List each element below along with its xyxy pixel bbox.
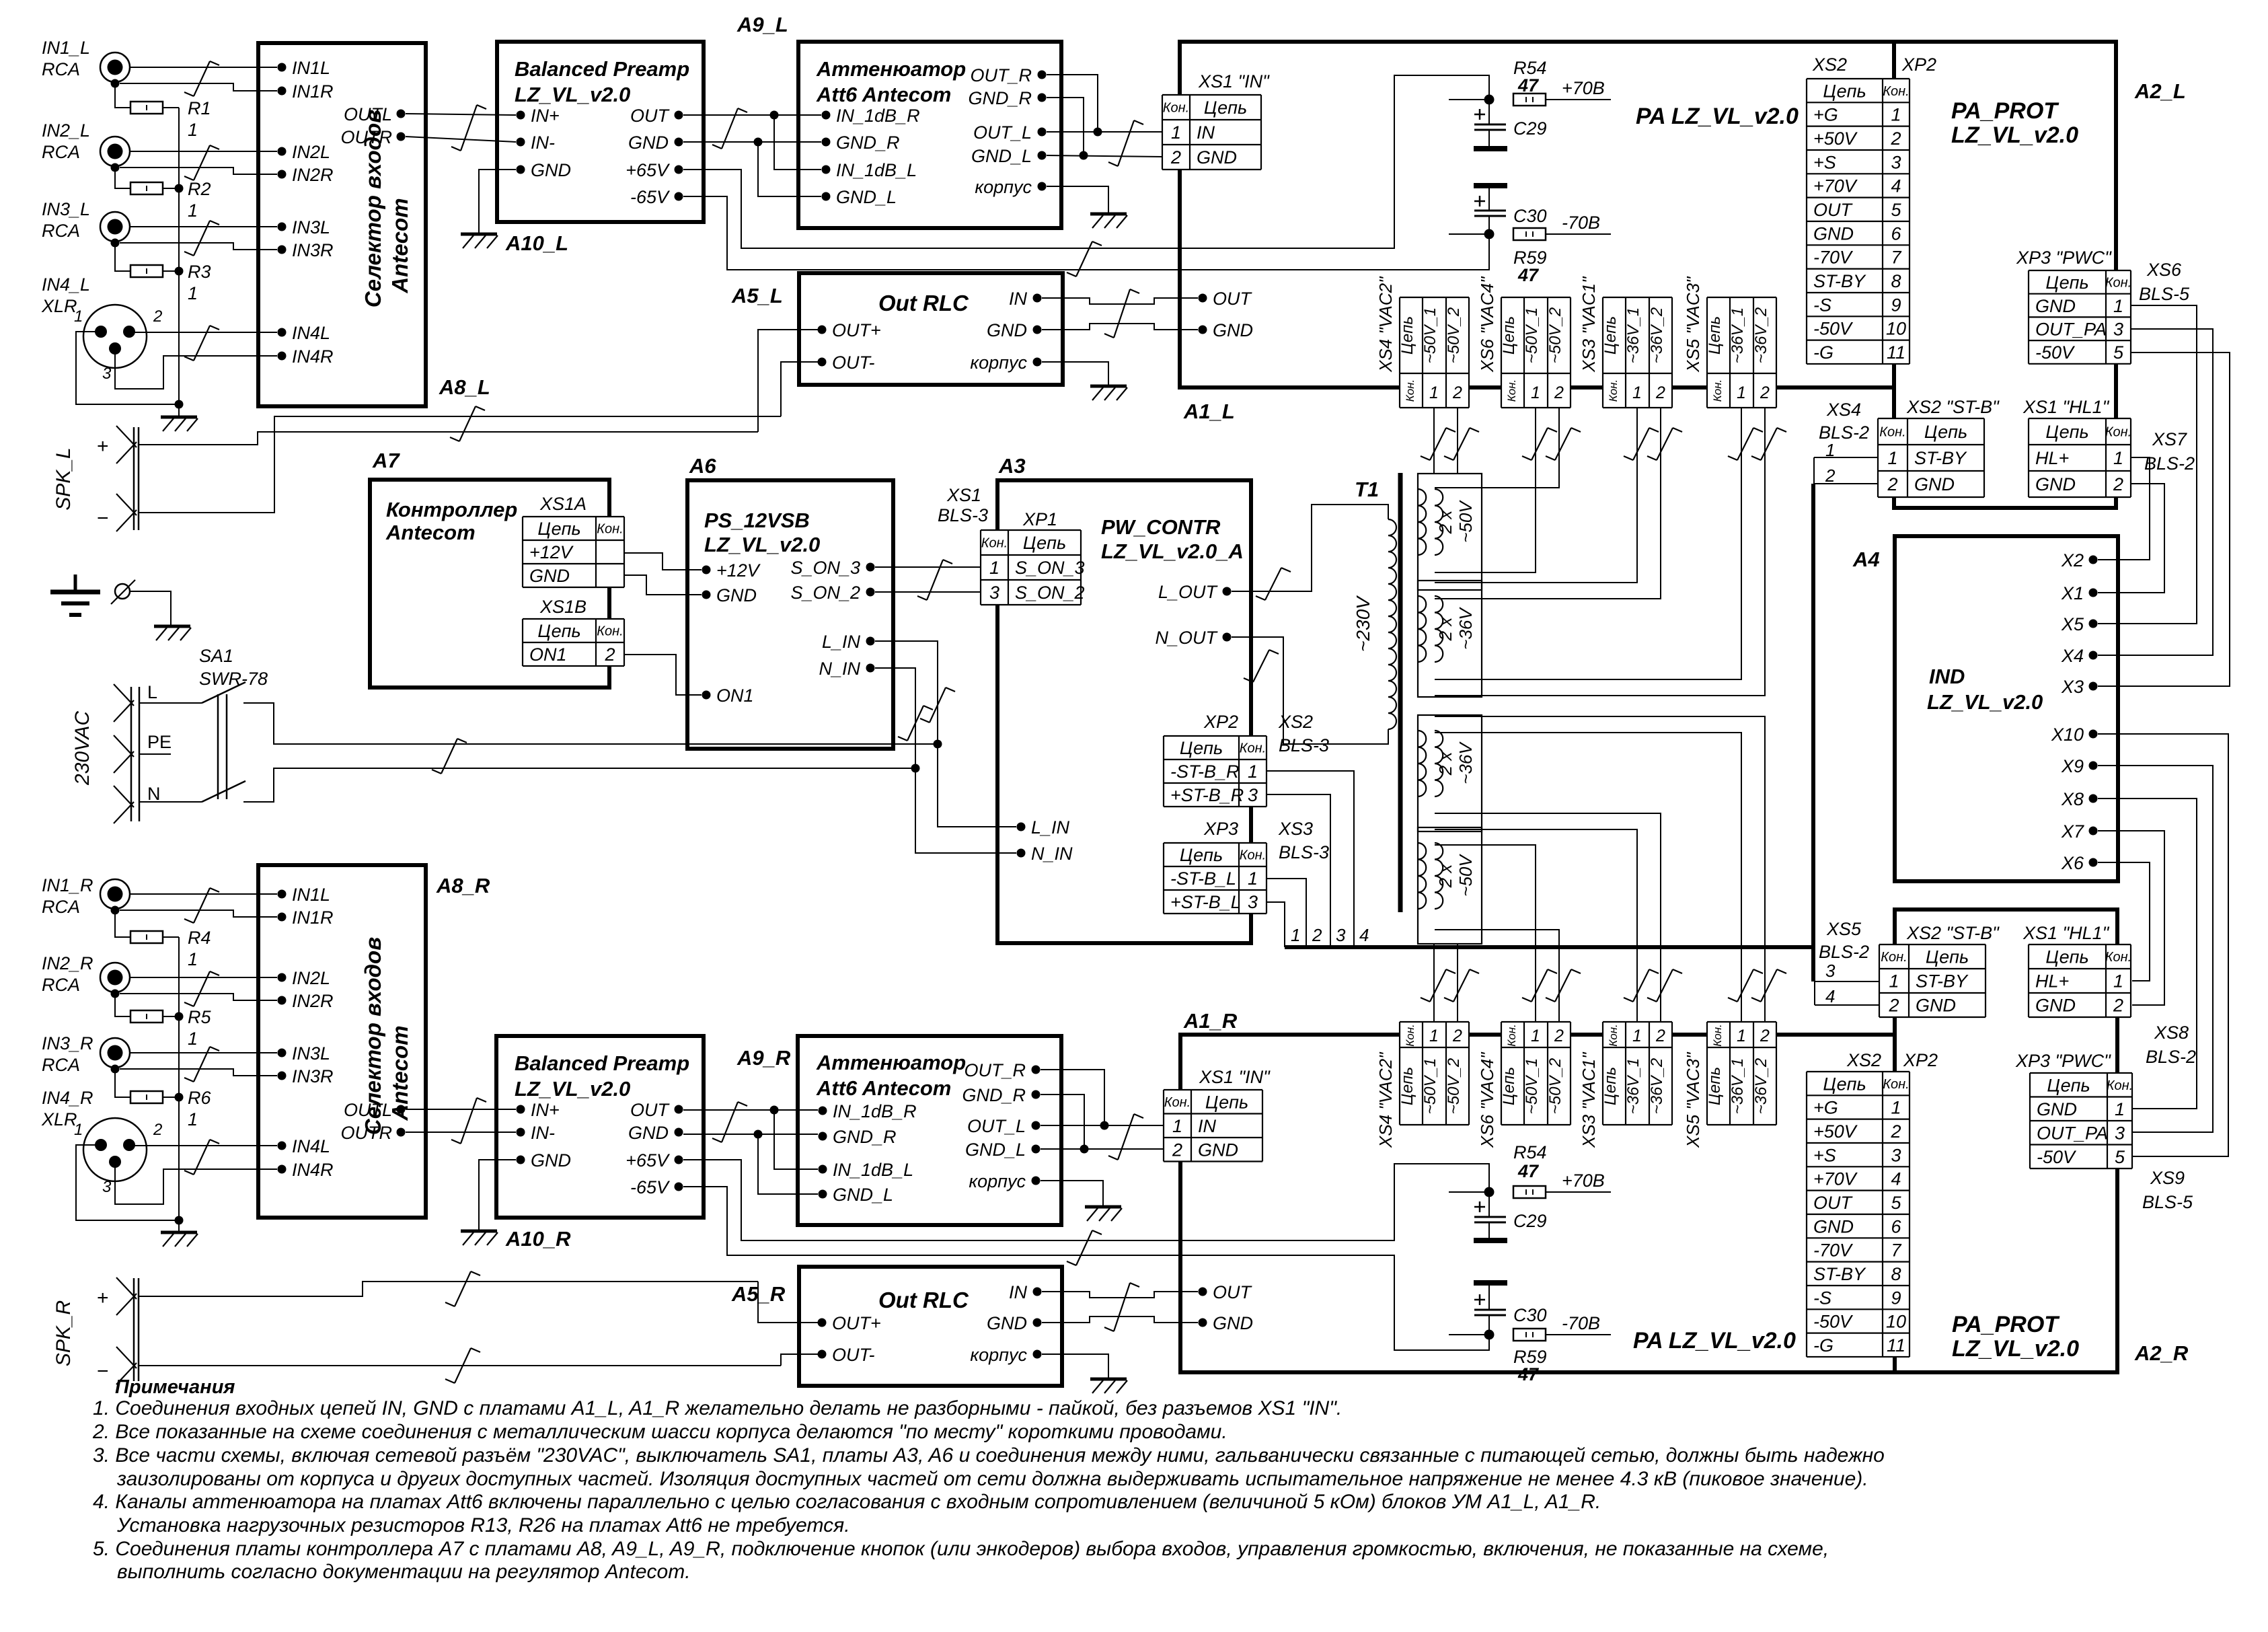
wire OUT split to IN_1dB_L bbox=[774, 115, 821, 170]
label A5_R bbox=[731, 1282, 786, 1306]
svg-text:~36V_1: ~36V_1 bbox=[1729, 307, 1747, 363]
svg-text:Цепь: Цепь bbox=[1706, 316, 1724, 355]
svg-text:Antecom: Antecom bbox=[387, 198, 412, 293]
svg-text:3. Все части схемы, включая се: 3. Все части схемы, включая сетевой разъ… bbox=[93, 1444, 1885, 1467]
svg-text:A4: A4 bbox=[1852, 548, 1880, 571]
svg-text:Att6 Antecom: Att6 Antecom bbox=[816, 1076, 951, 1100]
pin GND_R right of A9_L bbox=[968, 88, 1046, 108]
svg-text:1: 1 bbox=[188, 120, 198, 140]
svg-text:XS5 "VAC3": XS5 "VAC3" bbox=[1683, 1051, 1703, 1148]
svg-text:2: 2 bbox=[1760, 383, 1770, 402]
chassis ground A9_R bbox=[1085, 1207, 1122, 1221]
svg-text:3: 3 bbox=[1248, 785, 1258, 805]
wire X7 to HL GND bottom bbox=[2098, 831, 2164, 1005]
svg-text:RCA: RCA bbox=[42, 142, 80, 162]
label -70B bbox=[1562, 213, 1600, 233]
label T1 bbox=[1355, 478, 1379, 501]
wire XS1A +12V to A6 bbox=[624, 553, 702, 570]
pin GND_R right of A9_R bbox=[962, 1085, 1040, 1105]
pin IN1R of A8_L bbox=[278, 81, 334, 102]
cable slash VAC3 2 bbox=[1751, 428, 1786, 460]
svg-text:A9_L: A9_L bbox=[736, 13, 788, 36]
svg-text:OUT_PA: OUT_PA bbox=[2037, 1123, 2108, 1143]
svg-text:Цепь: Цепь bbox=[1823, 81, 1866, 101]
cable slash VAC1 2 bbox=[1647, 428, 1682, 460]
svg-text:-ST-B_L: -ST-B_L bbox=[1170, 868, 1236, 889]
svg-text:Balanced Preamp: Balanced Preamp bbox=[515, 1051, 689, 1075]
svg-text:IN: IN bbox=[1198, 1116, 1217, 1136]
svg-text:IN1L: IN1L bbox=[292, 58, 330, 78]
pin IN2L of A8_L bbox=[278, 142, 331, 162]
thick ST-B riser bbox=[1811, 484, 1815, 981]
svg-text:~50V_1: ~50V_1 bbox=[1421, 1058, 1439, 1114]
svg-text:1: 1 bbox=[74, 1121, 83, 1139]
svg-text:Кон.: Кон. bbox=[1711, 1024, 1724, 1047]
svg-text:2: 2 bbox=[1172, 1140, 1182, 1160]
cable slash SPK_R plus bbox=[445, 1271, 480, 1306]
wire OUT_L to XS1 IN row1 bbox=[1047, 131, 1162, 133]
svg-text:XS1: XS1 bbox=[946, 485, 981, 505]
label XS1 HL1 top bbox=[2023, 397, 2110, 417]
label A1_L bbox=[1183, 400, 1235, 423]
junction dot R59 bottom bbox=[1484, 1330, 1495, 1340]
svg-text:OUT: OUT bbox=[630, 1100, 671, 1120]
svg-text:2 x: 2 x bbox=[1435, 617, 1456, 642]
svg-text:2: 2 bbox=[1170, 147, 1181, 168]
XLR pin labels 1 2 3 bbox=[74, 307, 162, 383]
svg-text:-ST-B_R: -ST-B_R bbox=[1170, 762, 1240, 782]
svg-text:1: 1 bbox=[2113, 971, 2123, 992]
svg-text:1: 1 bbox=[188, 949, 198, 969]
svg-text:OUT: OUT bbox=[1813, 200, 1854, 220]
wire A5_L OUT+ down bbox=[758, 330, 822, 432]
pin L_IN of A6 bbox=[822, 632, 875, 652]
svg-text:XP2: XP2 bbox=[1901, 54, 1936, 75]
wire IN3_L sleeve to A8_L IN3R bbox=[120, 243, 277, 250]
svg-text:корпус: корпус bbox=[970, 1345, 1027, 1365]
wire +ST-B_L to bus bbox=[1267, 902, 1285, 947]
svg-text:Цепь: Цепь bbox=[2047, 1075, 2090, 1095]
svg-text:A9_R: A9_R bbox=[736, 1046, 791, 1070]
svg-text:−: − bbox=[97, 1360, 109, 1382]
label XS2 A1_R bbox=[1846, 1050, 1881, 1070]
T1 secondary winding group 2 2x~36V bbox=[1418, 581, 1482, 697]
wire IN1_L sleeve to A8_L IN1R bbox=[120, 83, 277, 91]
svg-text:Цепь: Цепь bbox=[537, 621, 580, 641]
pin X7 of A4 bbox=[2061, 821, 2098, 842]
wire +65V feed bottom bbox=[683, 1160, 1489, 1240]
svg-text:OUTR: OUTR bbox=[341, 127, 393, 147]
label XP3 PWC bottom bbox=[2015, 1051, 2111, 1071]
svg-text:GND: GND bbox=[1213, 320, 1253, 340]
svg-text:OUT_R: OUT_R bbox=[964, 1060, 1026, 1080]
switch SA1 bbox=[199, 646, 268, 802]
label A5_L bbox=[731, 284, 783, 307]
wire VAC1 bottom lead 2 bbox=[1435, 813, 1661, 1022]
svg-text:XS1B: XS1B bbox=[539, 597, 587, 617]
svg-text:-65V: -65V bbox=[630, 1177, 671, 1197]
cable slash N_OUT bbox=[1244, 650, 1279, 682]
svg-text:PE: PE bbox=[147, 732, 172, 752]
svg-text:5: 5 bbox=[2113, 342, 2124, 363]
pin IN2R of A8_R bbox=[278, 991, 334, 1011]
resistor R3 bbox=[130, 265, 163, 277]
svg-text:~50V_2: ~50V_2 bbox=[1445, 307, 1463, 363]
svg-text:Кон.: Кон. bbox=[1505, 379, 1518, 402]
label XS1 BLS-3 bbox=[938, 485, 988, 525]
svg-text:Кон.: Кон. bbox=[1883, 1077, 1909, 1092]
pin IN of A5_L bbox=[1009, 289, 1042, 309]
wire SA1 L out bbox=[243, 703, 938, 744]
block A1_R PA box bbox=[1180, 1035, 1895, 1372]
T1 primary winding bbox=[1388, 519, 1396, 729]
pin OUT of A10_R bbox=[630, 1100, 683, 1120]
A8_R rotated title bbox=[361, 937, 412, 1135]
svg-text:Кон.: Кон. bbox=[981, 536, 1008, 551]
svg-text:A10_L: A10_L bbox=[505, 231, 568, 255]
svg-text:4: 4 bbox=[1891, 176, 1901, 196]
resistor R54 bbox=[1513, 94, 1546, 106]
A4 title bbox=[1927, 665, 2043, 714]
pin S_ON_2 of A6 bbox=[790, 583, 874, 603]
svg-text:IN4R: IN4R bbox=[292, 346, 334, 367]
wire 230VAC PE stub bbox=[139, 753, 171, 755]
wire N_OUT to primary bbox=[1232, 637, 1388, 744]
svg-text:+S: +S bbox=[1813, 152, 1836, 172]
svg-text:1: 1 bbox=[1531, 1027, 1540, 1045]
svg-text:L_IN: L_IN bbox=[1031, 817, 1070, 838]
wire VAC4 bottom lead 2 bbox=[1435, 930, 1559, 1022]
wire ground bus vertical bottom bbox=[178, 937, 180, 1232]
svg-text:Цепь: Цепь bbox=[1601, 316, 1620, 355]
svg-text:GND: GND bbox=[2035, 996, 2076, 1016]
svg-text:X10: X10 bbox=[2051, 725, 2084, 745]
svg-text:~50V: ~50V bbox=[1456, 500, 1476, 543]
capacitor C30 bottom bbox=[1474, 1283, 1547, 1335]
svg-text:IN2_L: IN2_L bbox=[42, 120, 90, 141]
block A2_L PA_PROT box bbox=[1894, 42, 2116, 508]
wire SPK_R plus bbox=[139, 1282, 758, 1296]
cable slash A5_L-A1_L pair bbox=[1104, 289, 1139, 338]
block A10_L Balanced Preamp box bbox=[497, 42, 704, 222]
A10_R title bbox=[515, 1051, 689, 1101]
capacitor C29 bottom bbox=[1474, 1192, 1547, 1240]
cable slash att out pair bbox=[1108, 120, 1143, 166]
A9_R title bbox=[816, 1051, 966, 1100]
svg-text:выполнить согласно документаци: выполнить согласно документации на регул… bbox=[117, 1561, 691, 1583]
block A3 PW_CONTR box bbox=[997, 480, 1251, 943]
svg-text:Установка нагрузочных резистор: Установка нагрузочных резисторов R13, R2… bbox=[116, 1514, 850, 1536]
wire IN3_R sleeve down to R6 bbox=[115, 1073, 130, 1097]
svg-text:X3: X3 bbox=[2061, 677, 2084, 697]
pin GND right of A10_L bbox=[628, 133, 683, 153]
svg-text:R4: R4 bbox=[188, 928, 211, 948]
svg-text:A6: A6 bbox=[689, 454, 716, 478]
svg-text:XS6 "VAC4": XS6 "VAC4" bbox=[1477, 276, 1497, 373]
wire IN2_L sleeve to A8_L IN2R bbox=[120, 168, 277, 174]
svg-text:6: 6 bbox=[1891, 223, 1901, 244]
resistor R2 bbox=[130, 182, 163, 194]
svg-text:IN2L: IN2L bbox=[292, 968, 330, 988]
svg-text:2: 2 bbox=[1452, 1027, 1462, 1045]
svg-text:Цепь: Цепь bbox=[1706, 1067, 1724, 1105]
pin корпус of A5_L bbox=[970, 353, 1041, 373]
svg-text:1: 1 bbox=[2113, 296, 2123, 316]
svg-text:+70V: +70V bbox=[1813, 176, 1858, 196]
svg-text:~50V_2: ~50V_2 bbox=[1546, 307, 1564, 363]
svg-text:7: 7 bbox=[1891, 1240, 1901, 1261]
pin N_IN of A6 bbox=[819, 659, 874, 679]
wire X6 to HL+ bottom bbox=[2098, 862, 2150, 981]
label A2_L bbox=[2134, 79, 2186, 103]
label XS2 ST-B top bbox=[1906, 397, 2000, 417]
label XP1 bbox=[1022, 509, 1057, 529]
svg-text:OUT: OUT bbox=[1813, 1193, 1854, 1213]
block A5_L Out RLC box bbox=[799, 273, 1063, 385]
wire R3 to ground bus bbox=[163, 270, 179, 272]
svg-text:A10_R: A10_R bbox=[505, 1227, 571, 1251]
svg-text:XS5 "VAC3": XS5 "VAC3" bbox=[1683, 276, 1703, 373]
wire R54 to +70B bbox=[1546, 99, 1611, 100]
wire R1 to ground bus bbox=[163, 107, 179, 108]
svg-text:+G: +G bbox=[1813, 105, 1838, 125]
svg-text:Цепь: Цепь bbox=[1924, 422, 1967, 442]
svg-text:BLS-2: BLS-2 bbox=[2144, 453, 2195, 474]
RCA jack IN3_R bbox=[100, 1038, 130, 1074]
block A1_L PA box bbox=[1180, 42, 1894, 387]
label XS2 BLS-3 bbox=[1278, 712, 1329, 755]
wire GND_R down R bbox=[1041, 1095, 1084, 1149]
cable slash VAC1 1 bbox=[1624, 428, 1659, 460]
svg-text:2: 2 bbox=[1825, 466, 1836, 486]
svg-text:+70V: +70V bbox=[1813, 1169, 1858, 1189]
svg-text:BLS-3: BLS-3 bbox=[1279, 735, 1329, 755]
A10_L title bbox=[515, 57, 689, 106]
svg-text:XS4 "VAC2": XS4 "VAC2" bbox=[1375, 276, 1396, 373]
svg-text:230VAC: 230VAC bbox=[71, 711, 93, 786]
wire IN3_L tip to A8_L IN3L bbox=[130, 226, 277, 227]
svg-text:R3: R3 bbox=[188, 262, 211, 282]
pin OUT_L of A9_R bbox=[967, 1116, 1041, 1136]
svg-text:LZ_VL_v2.0_A: LZ_VL_v2.0_A bbox=[1101, 540, 1244, 563]
wire X8 to XP3 GND bottom bbox=[2098, 799, 2197, 1109]
pin GND of A10_R bbox=[517, 1150, 572, 1171]
junction dot GND split bbox=[754, 138, 763, 147]
svg-text:IN: IN bbox=[1197, 122, 1215, 143]
svg-text:1: 1 bbox=[188, 1109, 198, 1129]
chassis ground input bus bbox=[161, 417, 198, 431]
svg-text:47: 47 bbox=[1517, 1161, 1540, 1181]
wire корпус A9_L to chassis bbox=[1047, 186, 1108, 213]
svg-text:GND: GND bbox=[987, 1313, 1027, 1333]
svg-text:IN3_L: IN3_L bbox=[42, 199, 90, 219]
connector table XS5 "VAC3" top bbox=[1683, 276, 1776, 408]
block A9_L Att6 box bbox=[798, 42, 1061, 228]
svg-text:Кон.: Кон. bbox=[597, 624, 623, 639]
block A6 PS_12VSB box bbox=[687, 480, 893, 749]
wire XLR pin2 to A8_L IN4L bbox=[134, 332, 277, 333]
wire A10_R GND to chassis bbox=[479, 1160, 516, 1230]
junction dot OUT_R/OUT_L bbox=[1094, 128, 1102, 137]
label R2 value 1 bbox=[188, 179, 211, 221]
svg-text:2: 2 bbox=[1888, 996, 1899, 1016]
svg-text:GND: GND bbox=[529, 566, 570, 586]
block A9_R box bbox=[798, 1036, 1061, 1225]
svg-text:GND_R: GND_R bbox=[968, 88, 1032, 108]
label A9_R bbox=[736, 1046, 791, 1070]
svg-text:Цепь: Цепь bbox=[2045, 947, 2088, 967]
table XS2/XP2 A1_R-A2_R bbox=[1807, 1072, 1910, 1357]
wire +ST-B_R to bus bbox=[1267, 794, 1330, 947]
svg-text:Кон.: Кон. bbox=[1404, 1024, 1416, 1047]
wire VAC2 lead x2132 bbox=[1433, 408, 1435, 474]
wire R59 stub bbox=[1449, 233, 1489, 235]
svg-text:N: N bbox=[147, 784, 161, 804]
pin GND_L right of A9_L bbox=[971, 146, 1047, 166]
svg-text:GND: GND bbox=[531, 1150, 571, 1171]
svg-text:1: 1 bbox=[188, 283, 198, 303]
svg-text:IN_1dB_R: IN_1dB_R bbox=[833, 1101, 917, 1121]
svg-text:+50V: +50V bbox=[1813, 128, 1858, 149]
svg-text:LZ_VL_v2.0: LZ_VL_v2.0 bbox=[1952, 1336, 2079, 1362]
cable slash IN4_R pair bbox=[184, 1140, 219, 1175]
wire OUT_R down R bbox=[1041, 1070, 1104, 1125]
wire SPK_L plus bbox=[139, 432, 758, 445]
svg-text:XLR: XLR bbox=[41, 296, 77, 316]
connector table XS5 "VAC3" bottom bbox=[1683, 1022, 1776, 1148]
wire VAC3 lead 2 bbox=[1435, 408, 1765, 696]
svg-text:+ST-B_L: +ST-B_L bbox=[1170, 892, 1241, 912]
svg-text:2: 2 bbox=[1655, 1027, 1665, 1045]
pin OUT+ of A5_L bbox=[818, 320, 881, 340]
XLR connector IN4_L bbox=[83, 305, 147, 368]
text IN3_L RCA label bbox=[42, 199, 90, 241]
block A8_L Селектор входов box bbox=[258, 43, 426, 406]
junction dot XLR ground bbox=[175, 400, 184, 409]
svg-text:Цепь: Цепь bbox=[1180, 845, 1223, 865]
connector 230VAC bbox=[71, 682, 172, 823]
svg-text:XP2: XP2 bbox=[1903, 1050, 1938, 1070]
svg-text:Цепь: Цепь bbox=[1500, 1067, 1518, 1105]
svg-text:3: 3 bbox=[989, 583, 999, 603]
svg-text:C30: C30 bbox=[1513, 1305, 1547, 1325]
wire L_OUT to primary bbox=[1232, 505, 1388, 591]
pin IN_1dB_L of A9_L bbox=[822, 160, 917, 180]
wire A10_R OUT to A9_R bbox=[683, 1109, 818, 1111]
svg-text:L_OUT: L_OUT bbox=[1158, 582, 1219, 602]
label A3 bbox=[998, 454, 1026, 478]
wire A5_R OUT- down bbox=[781, 1354, 822, 1366]
wire X9 to XP3 OUT_PA bottom bbox=[2098, 766, 2213, 1132]
pin GND of A5_L bbox=[987, 320, 1042, 340]
svg-text:S_ON_2: S_ON_2 bbox=[1015, 583, 1085, 603]
cable slash VAC2 x2132 bbox=[1421, 428, 1456, 460]
A9_L title bbox=[816, 57, 966, 106]
svg-text:IN_1dB_L: IN_1dB_L bbox=[833, 1160, 913, 1180]
pin X10 of A4 bbox=[2051, 725, 2098, 745]
pin N_IN of A3 bbox=[1017, 844, 1073, 864]
svg-text:Кон.: Кон. bbox=[1240, 848, 1266, 863]
wire VAC3 bottom lead 2 bbox=[1435, 716, 1765, 1022]
capacitor C30 bbox=[1474, 186, 1547, 234]
wire GND_L to XS1 IN R bbox=[1041, 1148, 1164, 1150]
junction dot OUT split R bbox=[770, 1106, 779, 1115]
junction dot R6 bus bbox=[175, 1093, 184, 1102]
RCA jack IN2_L bbox=[100, 137, 130, 172]
pin +12V of A6 bbox=[702, 560, 761, 581]
block A7 controller box bbox=[370, 480, 609, 688]
wire R2 to ground bus bbox=[163, 188, 179, 189]
svg-text:11: 11 bbox=[1887, 1335, 1905, 1356]
svg-text:4: 4 bbox=[1825, 986, 1835, 1006]
wire IN3_R tip bbox=[130, 1052, 277, 1053]
svg-text:GND_R: GND_R bbox=[836, 133, 900, 153]
svg-text:2: 2 bbox=[1887, 474, 1897, 494]
svg-text:GND: GND bbox=[987, 320, 1027, 340]
svg-text:47: 47 bbox=[1517, 1364, 1540, 1384]
svg-text:C29: C29 bbox=[1513, 1211, 1547, 1231]
label XS7 BLS-2 bbox=[2144, 429, 2195, 474]
svg-text:ST-BY: ST-BY bbox=[1914, 448, 1967, 468]
wire OUTR to A10_R IN- bbox=[406, 1132, 516, 1133]
svg-text:IN4L: IN4L bbox=[292, 323, 330, 343]
pin IN_1dB_R of A9_L bbox=[822, 106, 920, 126]
svg-text:R1: R1 bbox=[188, 98, 211, 118]
svg-text:3: 3 bbox=[1336, 925, 1346, 945]
svg-text:BLS-2: BLS-2 bbox=[2146, 1047, 2196, 1067]
svg-text:N_OUT: N_OUT bbox=[1155, 628, 1218, 648]
transformer core T1 bbox=[1398, 473, 1403, 912]
svg-text:1. Соединения входных цепей IN: 1. Соединения входных цепей IN, GND с пл… bbox=[93, 1397, 1342, 1419]
svg-text:корпус: корпус bbox=[970, 353, 1027, 373]
svg-text:XS3: XS3 bbox=[1278, 819, 1313, 839]
svg-text:XS8: XS8 bbox=[2154, 1023, 2189, 1043]
pin IN- of A10_L bbox=[517, 133, 556, 153]
pin -65V of A10_L bbox=[630, 187, 683, 207]
svg-text:Цепь: Цепь bbox=[1205, 1092, 1248, 1112]
label XP2 of A3 bbox=[1203, 712, 1238, 732]
earth ground symbol bbox=[50, 574, 100, 615]
svg-text:PA LZ_VL_v2.0: PA LZ_VL_v2.0 bbox=[1636, 104, 1799, 129]
svg-text:3: 3 bbox=[102, 1178, 112, 1196]
svg-text:LZ_VL_v2.0: LZ_VL_v2.0 bbox=[515, 83, 630, 106]
pin OUTR of A8_L bbox=[341, 127, 406, 147]
table XS2 ST-B top bbox=[1878, 418, 1984, 497]
svg-text:GND_L: GND_L bbox=[836, 187, 897, 207]
chassis ground legend bbox=[154, 626, 191, 640]
label +70B bbox=[1562, 78, 1605, 98]
svg-text:+ST-B_R: +ST-B_R bbox=[1170, 785, 1244, 805]
pin IN3L of A8_R bbox=[278, 1043, 331, 1064]
junction dot R5 bus bbox=[175, 1012, 184, 1021]
svg-text:L: L bbox=[147, 682, 157, 702]
svg-text:Кон.: Кон. bbox=[1607, 1024, 1620, 1047]
svg-text:GND_L: GND_L bbox=[965, 1140, 1026, 1160]
svg-text:ON1: ON1 bbox=[529, 644, 567, 665]
svg-text:A3: A3 bbox=[998, 454, 1026, 478]
svg-text:GND: GND bbox=[2035, 474, 2076, 494]
pin IN_1dB_R of A9_R bbox=[819, 1101, 917, 1121]
wire -65V feed bottom bbox=[683, 1187, 1489, 1350]
junction dot R59 bbox=[1484, 229, 1495, 239]
text IN2_R RCA label bbox=[42, 953, 93, 995]
pin GND_L of A9_R bbox=[819, 1185, 894, 1205]
svg-text:1: 1 bbox=[1632, 383, 1642, 402]
svg-text:корпус: корпус bbox=[975, 177, 1032, 197]
label ~230V bbox=[1353, 595, 1373, 652]
svg-text:Кон.: Кон. bbox=[1607, 379, 1620, 402]
pin IN3R of A8_R bbox=[278, 1066, 334, 1086]
